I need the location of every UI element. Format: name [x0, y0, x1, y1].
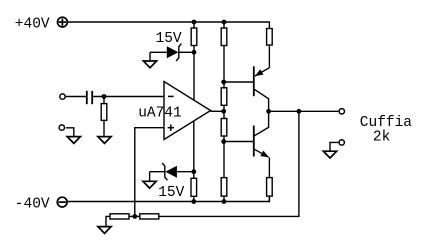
node rail-R1 [192, 20, 197, 25]
resistor R4 (+40V to upper base node) [221, 22, 227, 82]
capacitor C1 (input coupling) [87, 91, 92, 104]
resistor R2 (input to ground) [101, 97, 107, 136]
wire input to capacitor [66, 96, 86, 98]
wire capacitor to inverting input [93, 96, 164, 98]
svg-text:2k: 2k [373, 130, 390, 146]
terminal input signal [60, 94, 65, 99]
ground (input return) [67, 137, 80, 144]
wire base Q2 [224, 141, 254, 143]
label +40V [15, 17, 50, 33]
wire base Q1 [224, 81, 254, 83]
wire +40V rail [68, 22, 269, 29]
label 2k [373, 130, 390, 146]
transistor Q2 (NPN) [254, 111, 270, 177]
ground (below R2) [98, 137, 111, 144]
svg-text:uA741: uA741 [138, 106, 182, 122]
node rail-R3 [191, 199, 196, 204]
node rail-R7 [222, 199, 227, 204]
label 15V (upper zener) [156, 31, 182, 47]
terminal +40V supply [58, 17, 68, 27]
terminal -40V supply [57, 197, 67, 207]
resistor R6 (output node to lower base) [221, 111, 227, 141]
resistor R1 (+40V to +15V node) [191, 22, 197, 52]
node rail-R4 [222, 20, 227, 25]
op-amp inverting input marker [168, 95, 174, 97]
ground (lower zener cathode) [143, 181, 156, 188]
ground (output return) [323, 151, 336, 158]
label -40V [15, 197, 50, 213]
op-amp non-inverting input marker [168, 125, 174, 131]
node +15V [192, 50, 197, 55]
label 15V (lower zener) [158, 185, 184, 201]
node input bias [102, 94, 107, 99]
node collectors / output [266, 109, 271, 114]
label Cuffia [360, 115, 413, 131]
node feedback [132, 214, 137, 219]
wire output to terminal [269, 110, 339, 112]
svg-text:15V: 15V [158, 185, 184, 201]
ground (feedback divider) [98, 216, 111, 233]
resistor R3 (-15V node to -40V) [191, 172, 197, 202]
wire output return to ground [330, 142, 338, 151]
wire input return to ground [66, 128, 74, 137]
resistor R10 (feedback to ground) [110, 214, 135, 219]
node op-amp output [221, 109, 226, 114]
svg-text:+40V: +40V [15, 17, 50, 33]
zener diode D1 15V (upper) [150, 44, 194, 61]
op-amp U1 uA741 [164, 82, 211, 140]
terminal output (headphone) [339, 109, 344, 114]
wire op-amp output to divider [211, 110, 224, 112]
zener diode D2 15V (lower) [150, 163, 194, 181]
ground (upper zener anode) [143, 61, 156, 68]
svg-text:-40V: -40V [15, 197, 50, 213]
resistor R11 (feedback from output) [135, 214, 159, 219]
terminal input return [59, 125, 64, 130]
wire op-amp V- pin to -15V node [193, 121, 195, 172]
node -15V [191, 169, 196, 174]
resistor R5 (upper base to output node) [221, 82, 227, 111]
wire +15V node to op-amp V+ pin [193, 52, 195, 100]
wire -40V rail [68, 196, 270, 201]
label uA741 [138, 106, 182, 122]
resistor R8 (collector load +40V to Q1 emitter) [267, 29, 273, 68]
terminal output return [339, 140, 344, 145]
wire non-inverting input to feedback node [135, 128, 164, 217]
svg-text:15V: 15V [156, 31, 182, 47]
transistor Q1 (PNP) [254, 66, 270, 111]
node lower base [221, 139, 226, 144]
wire feedback to output [159, 111, 299, 216]
node output-feedback [297, 109, 302, 114]
resistor R9 (Q2 emitter to -40V) [267, 178, 273, 202]
resistor R7 (lower base to -40V) [221, 142, 227, 202]
node upper base [221, 80, 226, 85]
